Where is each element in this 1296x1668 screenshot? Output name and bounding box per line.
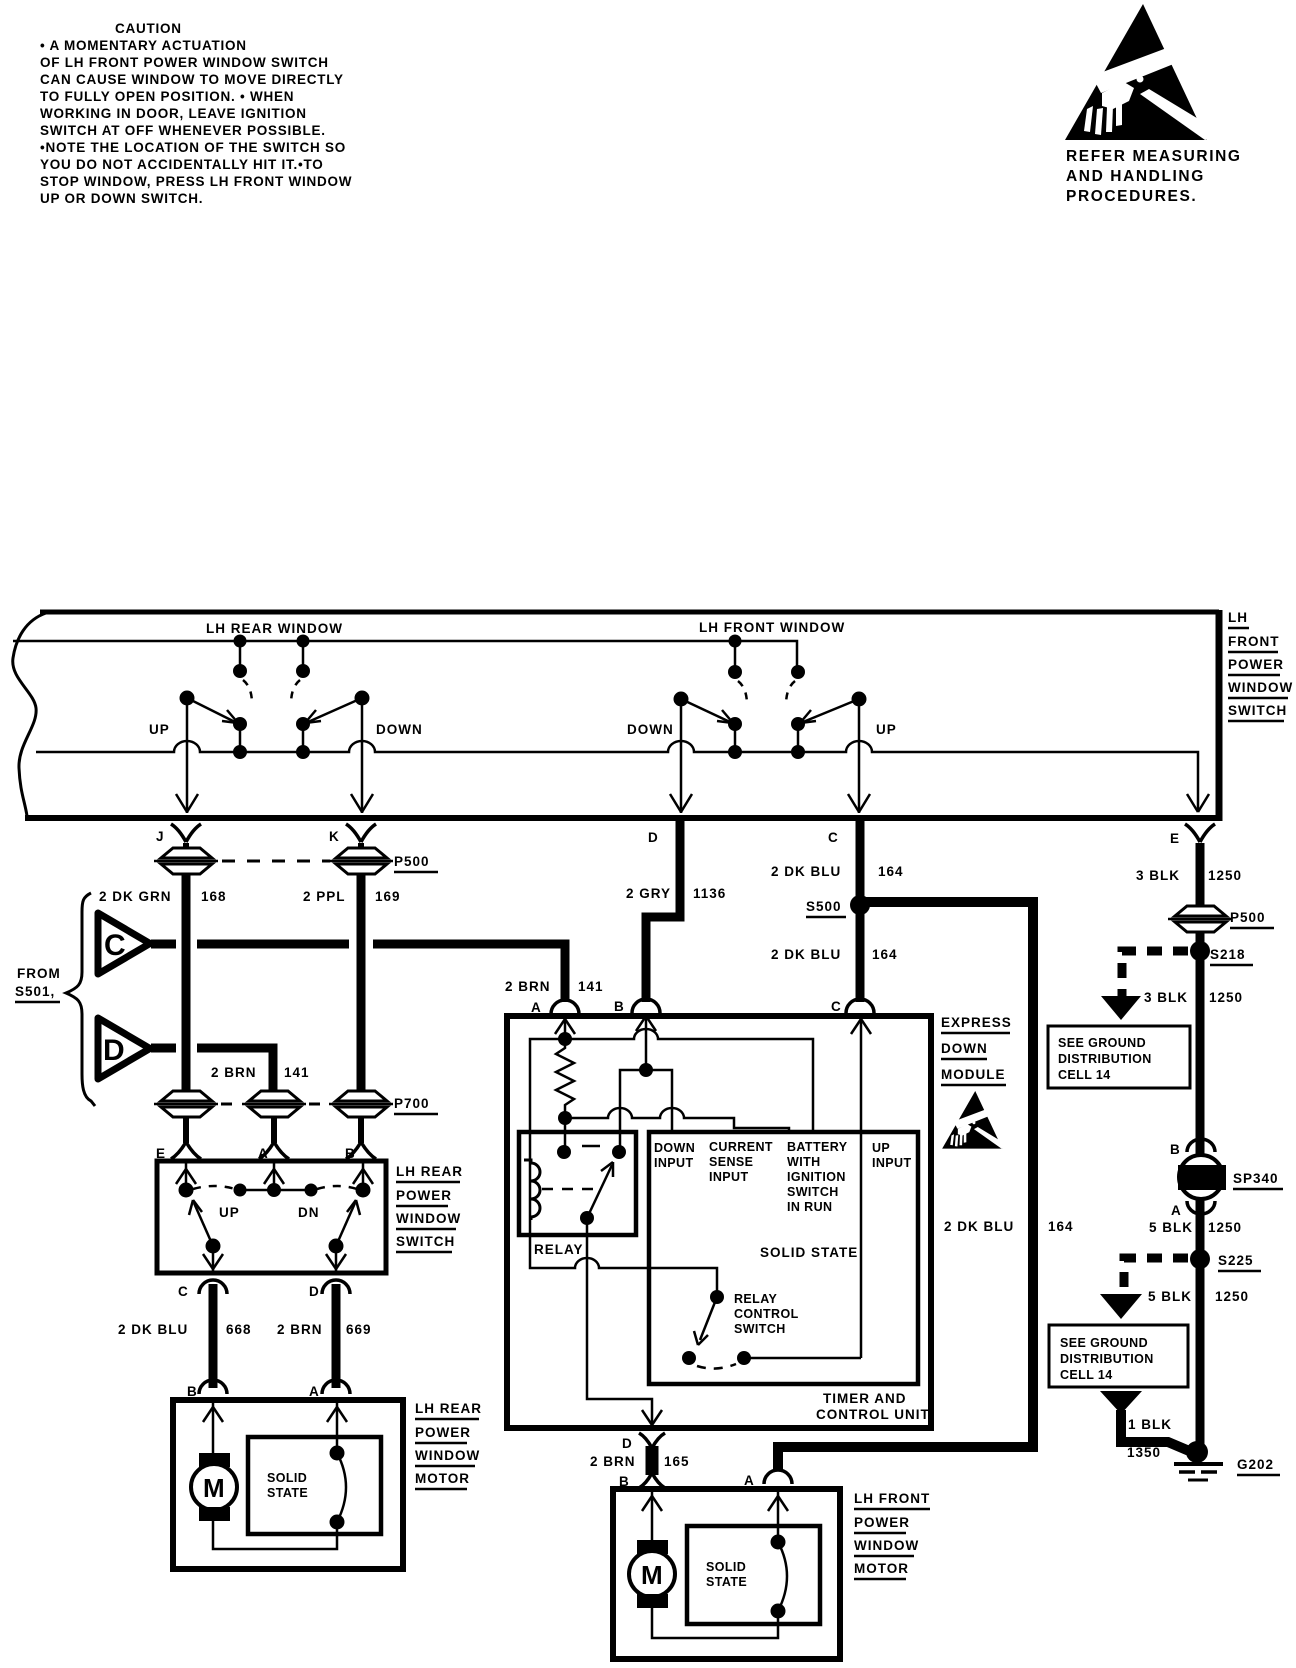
svg-text:D: D [103,1034,125,1067]
svg-text:YOU DO NOT ACCIDENTALLY HIT IT: YOU DO NOT ACCIDENTALLY HIT IT.•TO [40,157,324,172]
svg-text:2 DK GRN: 2 DK GRN [99,889,172,904]
svg-text:•NOTE THE LOCATION OF THE SWIT: •NOTE THE LOCATION OF THE SWITCH SO [40,140,346,155]
relay armature blade [580,1211,594,1225]
wire 668 [209,1284,218,1388]
svg-text:INPUT: INPUT [654,1156,694,1170]
box top edge [40,610,1219,615]
LH rear window switch contacts [234,635,310,678]
svg-text:SWITCH: SWITCH [734,1322,786,1336]
svg-text:1 BLK: 1 BLK [1128,1417,1172,1432]
timer and control unit box [649,1132,918,1384]
svg-text:• A MOMENTARY ACTUATION: • A MOMENTARY ACTUATION [40,38,247,53]
splice S218 [1190,941,1210,961]
ground branch arrowhead 2 [1100,1294,1142,1319]
svg-text:DOWN: DOWN [627,722,674,737]
svg-text:A: A [531,1000,542,1015]
svg-text:LH FRONT: LH FRONT [854,1491,930,1506]
svg-text:RELAY: RELAY [534,1242,584,1257]
svg-text:WINDOW: WINDOW [396,1211,461,1226]
svg-text:OF LH FRONT POWER WINDOW SWITC: OF LH FRONT POWER WINDOW SWITCH [40,55,329,70]
svg-text:EXPRESS: EXPRESS [941,1015,1012,1030]
svg-text:LH REAR WINDOW: LH REAR WINDOW [206,621,343,636]
rear motor interior [203,1400,347,1453]
svg-text:IGNITION: IGNITION [787,1170,846,1184]
svg-text:INPUT: INPUT [709,1170,749,1184]
svg-text:1250: 1250 [1209,990,1243,1005]
svg-text:SWITCH: SWITCH [787,1185,839,1199]
svg-text:DISTRIBUTION: DISTRIBUTION [1058,1052,1152,1066]
small ESD symbol on module [942,1091,1006,1149]
svg-text:CURRENT: CURRENT [709,1140,773,1154]
ESD warning symbol (static sensitive hand triangle) [1065,4,1215,140]
svg-text:CAUTION: CAUTION [115,21,182,36]
svg-text:B: B [614,999,625,1014]
svg-text:WORKING IN DOOR, LEAVE IGNITIO: WORKING IN DOOR, LEAVE IGNITION [40,106,307,121]
svg-text:164: 164 [1048,1219,1074,1234]
svg-text:2 GRY: 2 GRY [626,886,671,901]
svg-text:FROM: FROM [17,966,61,981]
ESD handling note [1066,148,1242,205]
svg-text:2 BRN: 2 BRN [590,1454,636,1469]
svg-text:164: 164 [878,864,904,879]
front switch DOWN wiper [674,692,742,759]
wire 1350 from cell 14 to G202 [1100,1391,1142,1414]
svg-text:A: A [309,1384,320,1399]
wire B-dot split to relay contact and current sense [620,1070,672,1152]
svg-text:141: 141 [578,979,604,994]
svg-text:UP OR DOWN SWITCH.: UP OR DOWN SWITCH. [40,191,203,206]
svg-text:UP: UP [149,722,170,737]
svg-text:POWER: POWER [396,1188,452,1203]
svg-text:SWITCH AT OFF WHENEVER POSSIBL: SWITCH AT OFF WHENEVER POSSIBLE. [40,123,326,138]
svg-text:FRONT: FRONT [1228,634,1280,649]
wire 165 stub [646,1446,659,1475]
wire 164 branch from S500 to LH front motor A [778,902,1033,1469]
svg-text:LH FRONT WINDOW: LH FRONT WINDOW [699,620,845,635]
svg-text:1250: 1250 [1208,1220,1242,1235]
svg-text:169: 169 [375,889,401,904]
svg-text:UP: UP [219,1205,240,1220]
svg-text:STOP WINDOW, PRESS LH FRONT WI: STOP WINDOW, PRESS LH FRONT WINDOW [40,174,352,189]
svg-text:AND HANDLING: AND HANDLING [1066,168,1205,185]
svg-text:D: D [648,830,659,845]
svg-text:RELAY: RELAY [734,1292,777,1306]
label EXPRESS DOWN MODULE [941,1015,1012,1085]
svg-text:UP: UP [872,1141,890,1155]
wire front UP to pin C with arrow [848,699,870,813]
svg-text:LH: LH [1228,610,1248,625]
svg-text:UP: UP [876,722,897,737]
svg-text:2 PPL: 2 PPL [303,889,346,904]
wire 669 [332,1284,341,1388]
ground G202 [1186,1441,1208,1463]
svg-text:1136: 1136 [693,886,726,901]
svg-text:5 BLK: 5 BLK [1149,1220,1193,1235]
svg-text:C: C [104,929,126,962]
rear motor M symbol [191,1453,237,1521]
svg-text:CAN CAUSE WINDOW TO MOVE DIREC: CAN CAUSE WINDOW TO MOVE DIRECTLY [40,72,344,87]
svg-text:TO FULLY OPEN POSITION. • WHEN: TO FULLY OPEN POSITION. • WHEN [40,89,294,104]
svg-text:J: J [156,829,165,844]
svg-text:P700: P700 [394,1096,430,1111]
front switch UP wiper [792,692,867,759]
rear switch UP wiper [180,691,247,759]
svg-text:C: C [831,999,842,1014]
front motor interior wires [642,1489,788,1542]
svg-text:WINDOW: WINDOW [1228,680,1293,695]
svg-text:DISTRIBUTION: DISTRIBUTION [1060,1352,1154,1366]
svg-text:A: A [1171,1203,1182,1218]
svg-text:WINDOW: WINDOW [854,1538,919,1553]
svg-text:POWER: POWER [1228,657,1284,672]
wire front DOWN to pin D with arrow [670,699,692,813]
dashed ground branch from S225 [1124,1258,1188,1294]
svg-text:SWITCH: SWITCH [1228,703,1287,718]
svg-text:1250: 1250 [1215,1289,1249,1304]
label LH REAR POWER WINDOW SWITCH [396,1164,463,1252]
svg-text:REFER MEASURING: REFER MEASURING [1066,148,1242,165]
module input C internal wire [851,1016,871,1358]
svg-text:P500: P500 [394,854,430,869]
svg-text:SOLID: SOLID [267,1471,307,1485]
svg-text:2 BRN: 2 BRN [211,1065,257,1080]
see ground distribution cell 14 box (upper) [1048,1026,1190,1088]
rear switch wiper to pin D [326,1200,360,1272]
relay contact left [557,1145,571,1159]
svg-text:POWER: POWER [415,1425,471,1440]
relay contact right [612,1145,626,1159]
svg-text:2 BRN: 2 BRN [277,1322,323,1337]
connector P500 pin K inline lens [329,848,393,874]
connector P700 pin A lens [242,1091,306,1117]
svg-text:141: 141 [284,1065,310,1080]
node A junction dot [558,1032,572,1046]
relay coil [524,1160,540,1220]
svg-text:3 BLK: 3 BLK [1136,868,1180,883]
wire 1136 (top box D to module B) [646,821,680,1002]
connector P500 pin J inline lens [154,848,218,874]
wire A-dot right to battery input (bump over B wire) [565,1029,813,1131]
svg-text:C: C [178,1284,189,1299]
label LH FRONT POWER WINDOW SWITCH (right side) [1228,610,1293,721]
front motor solid state switch arc [652,1535,787,1638]
brace FROM S501 [66,893,95,1106]
module input A internal wire [555,1016,575,1039]
svg-text:S225: S225 [1218,1253,1254,1268]
wire 1250 (E to ground) [1196,843,1205,1453]
svg-text:165: 165 [664,1454,690,1469]
box right edge [1216,610,1223,821]
dashed connector ties P700 [221,1103,240,1106]
splice S225 [1190,1249,1210,1269]
svg-text:D: D [622,1436,633,1451]
relay control switch [710,1290,724,1304]
relay contact travel dash [582,1145,600,1148]
dashed ground branch from S218 [1122,951,1188,996]
relay box [519,1132,636,1235]
svg-text:IN RUN: IN RUN [787,1200,832,1214]
wire 169 (K to rear switch B) [357,874,366,1090]
box bottom edge [25,815,1222,821]
svg-text:3 BLK: 3 BLK [1144,990,1188,1005]
svg-text:669: 669 [346,1322,372,1337]
rear motor solid state box [248,1437,381,1534]
node B junction dot [639,1063,653,1077]
svg-text:2 BRN: 2 BRN [505,979,551,994]
svg-text:D: D [309,1284,320,1299]
svg-text:M: M [641,1560,663,1590]
wire rear UP to pin J with arrow [176,698,198,813]
svg-text:M: M [203,1473,225,1503]
svg-text:668: 668 [226,1322,252,1337]
svg-text:A: A [744,1473,755,1488]
svg-text:WINDOW: WINDOW [415,1448,480,1463]
LH front power window switch assembly box (top) [13,610,1222,821]
svg-text:2 DK BLU: 2 DK BLU [771,947,841,962]
wire relay armature to module pin D [587,1218,652,1424]
LH front power window motor box [613,1489,840,1659]
svg-text:PROCEDURES.: PROCEDURES. [1066,188,1197,205]
svg-text:TIMER AND: TIMER AND [823,1391,907,1406]
svg-text:G202: G202 [1237,1457,1274,1472]
splice S500 [850,895,870,915]
svg-text:5 BLK: 5 BLK [1148,1289,1192,1304]
ground branch arrowhead [1101,996,1141,1020]
rear switch DOWN wiper [297,691,370,759]
svg-text:SEE GROUND: SEE GROUND [1060,1336,1148,1350]
svg-text:POWER: POWER [854,1515,910,1530]
module input B internal wire [636,1016,656,1069]
svg-text:B: B [187,1384,198,1399]
LH rear power window motor box [173,1400,403,1569]
svg-text:S218: S218 [1210,947,1246,962]
svg-text:DOWN: DOWN [376,722,423,737]
connector triangle C (from S501) [98,913,150,974]
svg-text:2 DK BLU: 2 DK BLU [944,1219,1014,1234]
relay coil actuator dashed link [542,1188,600,1191]
svg-text:2 DK BLU: 2 DK BLU [118,1322,188,1337]
wire to pin E with arrow [1187,794,1209,812]
svg-text:SOLID STATE: SOLID STATE [760,1245,858,1260]
svg-text:MOTOR: MOTOR [854,1561,909,1576]
label LH FRONT POWER WINDOW MOTOR [854,1491,930,1579]
connector P500 pin E lens [1168,906,1232,932]
svg-text:E: E [1170,831,1180,846]
box torn left edge [13,613,46,816]
svg-text:CELL 14: CELL 14 [1058,1068,1111,1082]
caution note text block [40,21,352,206]
front switch blade travel dashes [738,681,747,705]
connector P700 pin E lens [154,1091,218,1117]
resistor (current sense shunt) [556,1039,574,1118]
svg-text:STATE: STATE [706,1575,747,1589]
svg-text:CONTROL: CONTROL [734,1307,799,1321]
svg-text:CONTROL UNIT: CONTROL UNIT [816,1407,930,1422]
node below resistor [558,1111,572,1125]
wire rear DOWN to pin K with arrow [351,698,373,813]
svg-text:SENSE: SENSE [709,1155,753,1169]
svg-text:BATTERY: BATTERY [787,1140,848,1154]
svg-text:DOWN: DOWN [941,1041,988,1056]
svg-text:S501,: S501, [15,984,55,999]
dashed connector tie J-K [222,860,330,863]
svg-text:LH REAR: LH REAR [415,1401,482,1416]
wire resistor node to timer box (bumps over contact wires) [565,1108,789,1132]
svg-text:SWITCH: SWITCH [396,1234,455,1249]
bus wire lower (switch return line) with crossover bumps [36,741,1198,810]
connector P700 pin B lens [329,1091,393,1117]
svg-text:CELL 14: CELL 14 [1060,1368,1113,1382]
svg-text:MOTOR: MOTOR [415,1471,470,1486]
wire 168 (J to rear switch E) [182,874,191,1090]
svg-text:1250: 1250 [1208,868,1242,883]
svg-text:B: B [1170,1142,1181,1157]
label LH REAR POWER WINDOW MOTOR [415,1401,482,1489]
wire 141 from triangle C to module input A [151,944,565,1002]
bus wire upper (window switch feed line) [13,641,797,666]
svg-text:K: K [329,829,340,844]
svg-text:LH REAR: LH REAR [396,1164,463,1179]
LH front window switch contacts [729,635,805,679]
rear switch blade travel dashes [243,680,252,704]
wire 164 (top box C to S500 to module C) [856,821,865,1002]
rear switch interior wires and contacts [176,1161,373,1197]
svg-text:INPUT: INPUT [872,1156,912,1170]
splice pack SP340 [1179,1155,1223,1199]
svg-text:P500: P500 [1230,910,1266,925]
svg-text:STATE: STATE [267,1486,308,1500]
wire A-dot left and down to relay control feed [530,1039,717,1294]
front motor M symbol [629,1540,675,1608]
svg-text:S500: S500 [806,899,842,914]
express down module box [507,1016,931,1428]
wire 141 from triangle D to connector P700 A [151,1048,273,1090]
svg-text:DOWN: DOWN [654,1141,695,1155]
svg-text:DN: DN [298,1205,320,1220]
svg-text:SOLID: SOLID [706,1560,746,1574]
rear switch wiper to pin C [189,1200,223,1272]
connector triangle D (from S501) [98,1018,150,1079]
svg-text:1350: 1350 [1127,1445,1161,1460]
svg-text:SP340: SP340 [1233,1171,1279,1186]
rear motor solid state switch arc [213,1446,346,1549]
front motor solid state box [687,1526,820,1624]
svg-text:C: C [828,830,839,845]
see ground distribution cell 14 box (lower) [1049,1325,1188,1387]
svg-text:164: 164 [872,947,898,962]
svg-text:2 DK BLU: 2 DK BLU [771,864,841,879]
svg-text:168: 168 [201,889,227,904]
svg-text:MODULE: MODULE [941,1067,1006,1082]
svg-text:SEE GROUND: SEE GROUND [1058,1036,1146,1050]
LH rear power window switch box [157,1161,386,1273]
svg-text:WITH: WITH [787,1155,821,1169]
